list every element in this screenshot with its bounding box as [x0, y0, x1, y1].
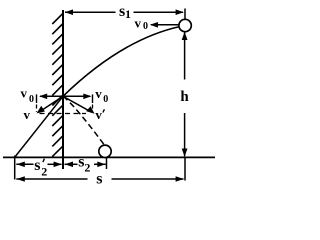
- svg-text:h: h: [180, 89, 189, 105]
- svg-text:s: s: [34, 157, 40, 174]
- svg-text:v: v: [95, 86, 102, 101]
- svg-text:2: 2: [41, 165, 47, 179]
- svg-text:s: s: [96, 171, 102, 188]
- svg-text:v: v: [24, 107, 31, 122]
- svg-text:v: v: [95, 107, 102, 122]
- svg-text:0: 0: [143, 21, 148, 32]
- svg-text:0: 0: [29, 94, 34, 105]
- svg-text:0: 0: [103, 94, 108, 105]
- svg-text:1: 1: [125, 7, 131, 21]
- svg-text:v: v: [21, 85, 28, 100]
- svg-text:2: 2: [84, 160, 90, 174]
- svg-text:v: v: [135, 16, 142, 31]
